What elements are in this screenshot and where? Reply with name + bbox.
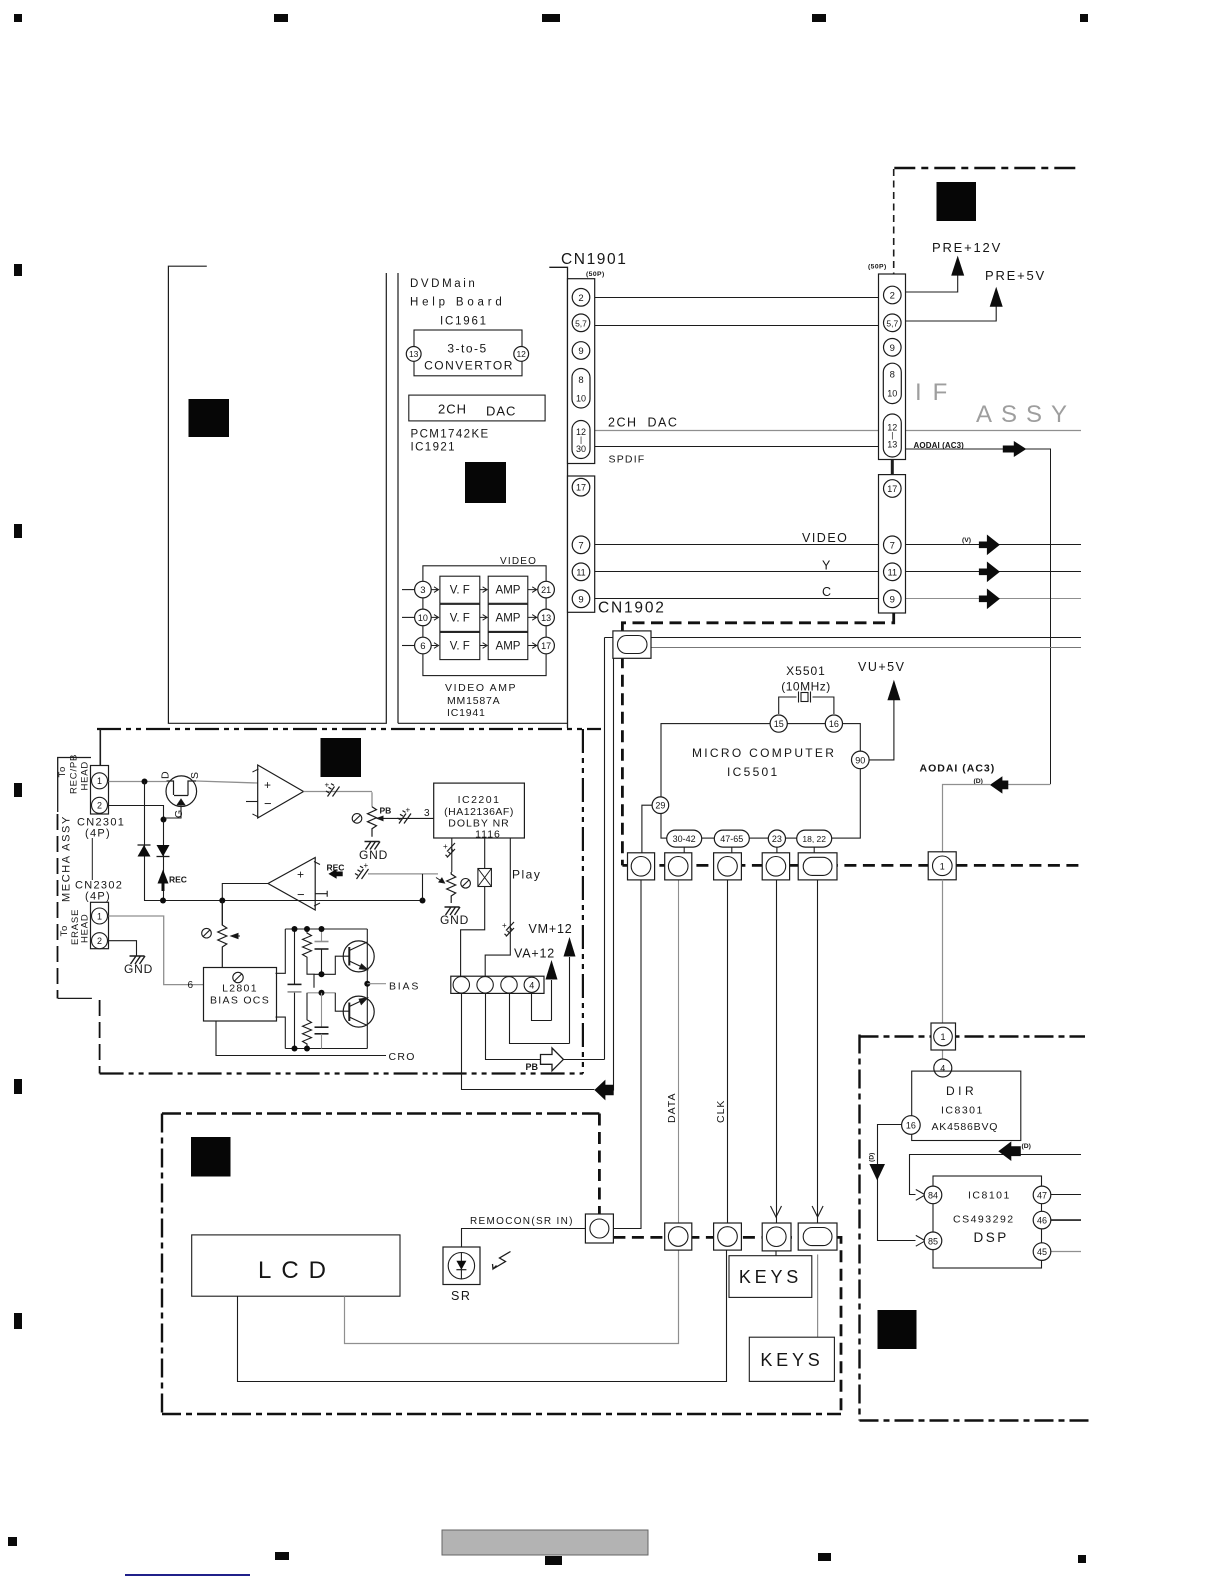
transistor Q1: [343, 941, 374, 972]
(D) wire from right into DSP pin84: [910, 1155, 1082, 1195]
CN2302 connector: [91, 902, 109, 948]
wire 23 to bus: [776, 847, 778, 853]
DSP assy dash-dot border left: [858, 1035, 860, 1421]
blackout square A (left board): [189, 399, 230, 437]
AMP box row1: [488, 576, 528, 603]
AODAI right block arrow: [1003, 441, 1027, 457]
JFET Q2301: [166, 776, 197, 807]
PRE+5V supply arrow: [906, 306, 997, 321]
DVD main board right edge / CN1901 leader: [549, 267, 567, 728]
wire DIR pin16 to DSP pin85: [878, 1125, 916, 1241]
wire JFET S to opamp1 (gray): [196, 781, 258, 783]
registration mark top 5: [1080, 14, 1088, 22]
GND under PB pot: [365, 842, 381, 850]
bracket To ERASE HEAD: [58, 997, 92, 999]
svg-text:9: 9: [890, 594, 895, 605]
pin oval 8-10: [572, 369, 590, 409]
svg-text:HEAD: HEAD: [80, 761, 91, 791]
svg-text:8: 8: [890, 369, 895, 380]
wire CN2302 pin2 to GND: [109, 941, 137, 956]
variable mark: [461, 879, 471, 889]
svg-text:(10MHz): (10MHz): [781, 680, 831, 694]
junction dots on bottom wire: [160, 898, 166, 904]
svg-text:16: 16: [829, 719, 839, 729]
pin 9: [572, 342, 590, 360]
variable mark: [202, 928, 212, 938]
registration mark top 4: [812, 14, 826, 22]
svg-text:21: 21: [541, 585, 551, 595]
blue footer line: [125, 1574, 250, 1576]
svg-text:15: 15: [774, 719, 784, 729]
REC pot R2302: [447, 872, 456, 903]
wire CLK below sq3: [727, 880, 729, 1224]
svg-text:4: 4: [940, 1064, 945, 1074]
svg-text:CONVERTOR: CONVERTOR: [424, 359, 514, 373]
CRO wire: [216, 1021, 386, 1056]
svg-text:1: 1: [97, 776, 102, 786]
svg-text:REMOCON(SR IN): REMOCON(SR IN): [470, 1216, 574, 1227]
svg-text:L2801: L2801: [222, 983, 258, 995]
pin 11: [572, 563, 590, 581]
svg-text:IC1921: IC1921: [411, 442, 456, 454]
svg-text:Help Board: Help Board: [410, 297, 506, 309]
IF ASSY dash-dot border top: [894, 167, 1081, 170]
pin 17: [572, 478, 590, 496]
mecha assy border left pieces: [99, 729, 101, 765]
wire VIDEO: [595, 544, 1081, 546]
svg-text:29: 29: [655, 801, 665, 811]
V.F AMP labels: [450, 585, 521, 653]
svg-text:2CH DAC: 2CH DAC: [608, 416, 678, 430]
mecha assy border bottom: [100, 1072, 583, 1074]
pin 16: [825, 715, 842, 732]
svg-text:+: +: [502, 921, 507, 930]
REC left arrow into + input: [328, 869, 342, 879]
svg-text:1: 1: [940, 861, 945, 871]
svg-text:IC1941: IC1941: [447, 707, 486, 719]
wire + input to REC pot (gray): [368, 873, 438, 875]
svg-text:REC: REC: [169, 875, 187, 885]
front panel dash-dot border left: [161, 1114, 163, 1415]
svg-text:DVDMain: DVDMain: [410, 278, 477, 290]
svg-text:V. F: V. F: [450, 612, 470, 624]
svg-text:GND: GND: [440, 913, 469, 927]
diode D1 up: [138, 845, 151, 857]
bias pot wiper arrow: [231, 934, 240, 939]
op-amp U2301a: [258, 765, 304, 818]
wire PB branch vertical: [604, 638, 606, 1060]
AODAI left block arrow: [990, 776, 1008, 793]
pin oval 47-65: [714, 830, 749, 847]
transistor Q2: [343, 996, 374, 1027]
front panel dash-dot border top: [162, 1112, 599, 1114]
svg-text:DATA: DATA: [666, 1093, 678, 1123]
C2 column (gray): [321, 993, 323, 1027]
svg-text:S: S: [189, 772, 201, 779]
KEYS box 2: [749, 1337, 834, 1381]
registration mark left 2: [14, 524, 22, 538]
cap a on output: [326, 784, 340, 797]
wire pin 29 to bus square: [642, 805, 653, 853]
bottom bus wire of head stage: [144, 900, 423, 902]
svg-text:AK4586BVQ: AK4586BVQ: [932, 1121, 999, 1133]
pin 29: [652, 797, 669, 814]
bias osc tank: left rail: [276, 929, 286, 1049]
pin 90: [852, 751, 870, 769]
svg-text:KEYS: KEYS: [739, 1267, 802, 1287]
svg-text:84: 84: [928, 1190, 938, 1200]
svg-text:(HA12136AF): (HA12136AF): [444, 806, 514, 818]
pin 84: [924, 1186, 942, 1204]
video amp outer loop box: [423, 566, 546, 676]
2CH DAC block PCM1742KE: [409, 395, 545, 421]
video amp pin circles right: [538, 581, 555, 598]
REC pot wiper: [436, 878, 445, 884]
svg-text:9: 9: [890, 343, 895, 354]
svg-text:VU+5V: VU+5V: [858, 660, 905, 674]
svg-text:DSP: DSP: [974, 1230, 1009, 1245]
svg-text:IC8301: IC8301: [941, 1105, 984, 1117]
pin 47 wire: [1051, 1194, 1081, 1196]
registration mark left 4: [14, 1079, 22, 1094]
svg-text:CRO: CRO: [389, 1051, 416, 1063]
arrowhead into pin 85: [916, 1235, 926, 1246]
wire pin2 to right connector: [595, 297, 884, 299]
bus1 bold dashed FFC horizontal: [622, 864, 1081, 867]
pin 23: [768, 830, 785, 847]
registration mark bottom 4: [818, 1553, 831, 1561]
cap c on + input wire: [355, 866, 369, 879]
svg-text:10: 10: [887, 389, 897, 399]
bias level pot: [218, 901, 227, 968]
DSP assy dash-dot border bottom: [860, 1419, 1091, 1421]
svg-text:23: 23: [772, 834, 782, 844]
svg-text:MM1587A: MM1587A: [447, 695, 500, 707]
svg-text:IC1961: IC1961: [440, 316, 488, 328]
pin 2: [572, 289, 590, 307]
svg-text:IC8101: IC8101: [968, 1190, 1011, 1202]
diode D2 down: [157, 845, 170, 857]
VM+12 arrow: [569, 957, 571, 1044]
IF pin 11: [884, 563, 902, 581]
svg-text:12: 12: [516, 349, 526, 359]
dots on rails: [292, 926, 298, 932]
left PCB outline box: [168, 266, 386, 723]
wire Y: [595, 571, 1081, 573]
IC2201 wire1 to REC pot: [451, 838, 453, 872]
svg-text:GND: GND: [124, 962, 153, 976]
blackout square E (front panel): [191, 1137, 231, 1177]
LCD box: [192, 1235, 400, 1296]
svg-text:3-to-5: 3-to-5: [447, 342, 487, 356]
wire pin5,7 to right connector: [595, 325, 884, 327]
bus1 square 1: [628, 853, 655, 880]
svg-text:MICRO COMPUTER: MICRO COMPUTER: [692, 746, 836, 760]
svg-text:7: 7: [578, 540, 583, 551]
svg-text:9: 9: [578, 346, 583, 357]
svg-text:(4P): (4P): [85, 828, 111, 840]
remocon connector square: [585, 1214, 613, 1243]
registration mark left 5: [14, 1313, 22, 1329]
IF pin 17: [884, 480, 902, 498]
wire below sq1 to remocon loop: [613, 880, 641, 1229]
LCD wire B: [238, 1250, 727, 1382]
svg-text:(D): (D): [869, 1153, 876, 1162]
gray footer bar: [442, 1530, 648, 1555]
front panel dashed wire corner to remocon: [598, 1114, 601, 1215]
svg-text:11: 11: [888, 567, 897, 577]
wire DATA below sq2 (gray): [678, 880, 680, 1224]
4 pin connector strip: [451, 976, 544, 993]
bus2 square 5: [798, 1223, 837, 1250]
diode chain right / REC: [163, 820, 165, 901]
pin 13 of IC1961: [406, 347, 421, 362]
svg-text:IC2201: IC2201: [458, 794, 501, 806]
video amp pin circles left: [415, 581, 432, 598]
L2801 bias osc box: [204, 968, 277, 1022]
arrowhead into pin 84: [916, 1190, 926, 1201]
SR photo sensor box: [443, 1247, 480, 1285]
svg-text:1116: 1116: [475, 829, 501, 841]
IC2201 dolby box: [434, 783, 525, 838]
IF pin 5,7: [884, 314, 902, 332]
svg-text:BIAS OCS: BIAS OCS: [210, 995, 270, 1007]
svg-text:10: 10: [418, 613, 428, 623]
wire SR to remocon square: [462, 1229, 586, 1248]
DIR block IC8301: [912, 1071, 1021, 1140]
svg-text:6: 6: [187, 980, 193, 991]
svg-text:18, 22: 18, 22: [802, 834, 826, 844]
IF pin 9: [884, 339, 902, 357]
VA+12 arrow: [551, 980, 553, 1021]
IF ASSY dashed leader down to connector: [893, 169, 895, 274]
KEYS box 1: [729, 1256, 812, 1298]
GND under erase pin2: [130, 956, 146, 964]
CN1901 connector box upper: [568, 279, 595, 464]
pin 45: [1033, 1243, 1051, 1261]
svg-text:+: +: [325, 781, 330, 790]
wire CN1902 lower long line (gray): [614, 647, 1082, 649]
conn pin3 wire to VM: [510, 993, 570, 1044]
R2 resistor: [303, 993, 312, 1049]
top rail: [285, 928, 367, 930]
svg-text:8: 8: [578, 375, 583, 386]
svg-text:45: 45: [1037, 1247, 1047, 1257]
conn pin4 wire to VA: [532, 992, 552, 1020]
pin oval 18,22: [797, 830, 832, 847]
svg-text:Y: Y: [822, 559, 831, 573]
svg-text:16: 16: [906, 1121, 916, 1131]
svg-text:11: 11: [576, 567, 585, 577]
svg-text:47-65: 47-65: [720, 834, 743, 844]
svg-text:AMP: AMP: [496, 641, 521, 653]
svg-text:CS493292: CS493292: [953, 1214, 1015, 1226]
bus1 square 4: [762, 853, 789, 880]
registration mark bottom 1: [8, 1537, 17, 1546]
svg-text:ASSY: ASSY: [976, 401, 1076, 428]
conn pin1 wire down to PB return: [462, 993, 595, 1090]
wire 18,22 to bus: [813, 847, 815, 853]
PRE+12V supply arrow: [906, 275, 958, 292]
svg-text:C: C: [822, 585, 831, 599]
svg-text:KEYS: KEYS: [760, 1350, 823, 1370]
VIDEO out block arrow: [979, 535, 1000, 556]
svg-text:AMP: AMP: [496, 585, 521, 597]
(D) down arrow: [869, 1164, 885, 1181]
CN1901 connector box lower: [568, 476, 595, 612]
svg-text:CLK: CLK: [715, 1100, 727, 1123]
svg-text:13: 13: [541, 613, 551, 623]
VU+5V arrow from pin 90: [869, 700, 894, 760]
svg-text:1: 1: [940, 1032, 945, 1042]
pin 15: [770, 715, 787, 732]
svg-text:(V): (V): [962, 537, 971, 544]
svg-text:(D): (D): [1022, 1143, 1031, 1150]
IF pin oval 12-13: [883, 414, 901, 457]
svg-text:47: 47: [1037, 1190, 1047, 1200]
cap b on pin3 wire: [398, 811, 412, 824]
svg-text:1: 1: [97, 911, 102, 921]
svg-text:VM+12: VM+12: [529, 922, 573, 936]
bottom rail: [285, 1048, 367, 1050]
wire SPDIF: [595, 446, 884, 448]
svg-text:VIDEO: VIDEO: [802, 531, 848, 545]
black left arrow on PB return: [594, 1080, 613, 1101]
pin 85: [924, 1232, 942, 1250]
V.F box row1: [440, 576, 480, 603]
svg-text:G: G: [173, 810, 185, 818]
bus2 square 4: [762, 1223, 791, 1251]
svg-text:+: +: [297, 868, 304, 882]
leader between CN2301 CN2302: [91, 838, 93, 880]
IF pin 2: [884, 286, 902, 304]
C1 column (gray): [321, 929, 323, 942]
connector square 1 on DSP border: [931, 1023, 956, 1050]
wire CN2301 pin2 to gate net: [109, 806, 164, 820]
svg-text:REC/PB: REC/PB: [69, 754, 80, 794]
svg-text:PRE+5V: PRE+5V: [985, 268, 1046, 283]
svg-text:DIR: DIR: [946, 1084, 977, 1098]
(D) left block arrow: [998, 1141, 1021, 1161]
svg-text:6: 6: [420, 641, 425, 652]
svg-text:DAC: DAC: [486, 404, 516, 419]
cap column: [294, 929, 296, 1049]
svg-text:7: 7: [890, 540, 895, 551]
wire 30-42 to bus: [683, 847, 685, 853]
branch up to + wire: [422, 874, 424, 901]
IC2201 wire2 through X-cap to conn pin1: [461, 838, 485, 976]
svg-text:2: 2: [578, 293, 583, 304]
bus2 square 2: [665, 1223, 692, 1250]
svg-text:17: 17: [541, 641, 551, 651]
svg-text:(50P): (50P): [586, 271, 605, 278]
pin 47: [1033, 1186, 1051, 1204]
pin 45 wire (gray): [1051, 1251, 1081, 1253]
svg-text:V. F: V. F: [450, 585, 470, 597]
svg-text:10: 10: [576, 394, 586, 404]
registration mark top 1: [14, 14, 22, 22]
mecha assy dash-dot border top: [97, 728, 601, 730]
blackout square D (mecha): [321, 738, 362, 777]
wire 47-65 to bus: [731, 847, 733, 853]
bus2 bold dashed: [613, 1237, 841, 1414]
front panel dash-dot border bottom: [162, 1413, 841, 1415]
REC up arrow: [158, 870, 169, 884]
IF connector box lower: [879, 475, 906, 613]
svg-text:SR: SR: [451, 1289, 471, 1303]
blackout square F (DSP assy): [878, 1310, 917, 1349]
pin oval 30-42: [667, 830, 702, 847]
svg-text:PRE+12V: PRE+12V: [932, 240, 1002, 255]
crystal X5501: [779, 692, 834, 715]
IF pin 7: [884, 536, 902, 554]
svg-text:3: 3: [424, 808, 430, 819]
svg-text:CN1902: CN1902: [598, 600, 666, 617]
svg-text:CN1901: CN1901: [561, 251, 627, 268]
BIAS tap: [364, 981, 370, 987]
svg-text:SPDIF: SPDIF: [609, 454, 646, 466]
GND under REC pot: [445, 907, 461, 915]
pin 46: [1033, 1211, 1051, 1229]
blackout square B (DVD board): [465, 462, 506, 503]
Q1 base net: [314, 956, 349, 974]
mecha assy border right: [582, 729, 584, 1074]
variable mark: [352, 814, 362, 824]
svg-text:MECHA ASSY: MECHA ASSY: [61, 815, 73, 902]
PB pot R2301: [368, 807, 377, 837]
IF assy bold dashed FFC vertical: [622, 613, 893, 865]
svg-text:Play: Play: [512, 868, 541, 882]
svg-text:4: 4: [529, 980, 534, 990]
svg-text:3: 3: [420, 585, 425, 596]
svg-text:17: 17: [887, 484, 897, 494]
wire CN1902 upper long line: [605, 637, 1082, 639]
DSP assy dash-dot border top: [860, 1035, 1086, 1037]
svg-text:To: To: [59, 925, 70, 937]
svg-text:AODAI (AC3): AODAI (AC3): [920, 763, 996, 775]
wire sq5 to KEYS2 (gray): [817, 1255, 819, 1338]
svg-text:2: 2: [97, 801, 102, 811]
registration mark bottom 2: [275, 1552, 289, 1560]
wire pot wiper to IC2201 pin3: [383, 817, 434, 819]
cap d on wire1: [446, 843, 456, 858]
bus1 square D: [928, 852, 956, 880]
svg-text:(4P): (4P): [85, 891, 111, 903]
registration mark left 3: [14, 783, 22, 797]
registration mark top 2: [274, 14, 288, 22]
svg-text:−: −: [264, 796, 272, 811]
svg-text:To: To: [57, 766, 68, 778]
svg-text:LCD: LCD: [258, 1257, 336, 1284]
video amp input stubs: [402, 590, 415, 646]
svg-text:|: |: [891, 431, 893, 440]
svg-text:AMP: AMP: [496, 612, 521, 624]
svg-text:HEAD: HEAD: [80, 913, 91, 943]
R1 resistor: [303, 929, 315, 988]
AODAI return wire (gray): [943, 785, 1051, 853]
svg-text:PB: PB: [526, 1062, 539, 1072]
AMP box row3: [488, 632, 528, 659]
emitter rail: [366, 929, 368, 1049]
svg-text:13: 13: [409, 349, 419, 359]
IC2201 wire3 Play to conn pin2: [485, 838, 510, 976]
junction dot gate: [161, 817, 167, 823]
conn pin2 wire down to PB arrow: [486, 993, 605, 1060]
Q2 base net (gray horizontal): [308, 992, 336, 994]
registration mark bottom 3: [545, 1556, 562, 1565]
svg-text:+: +: [364, 861, 369, 870]
pin 46 wire: [1051, 1219, 1081, 1221]
